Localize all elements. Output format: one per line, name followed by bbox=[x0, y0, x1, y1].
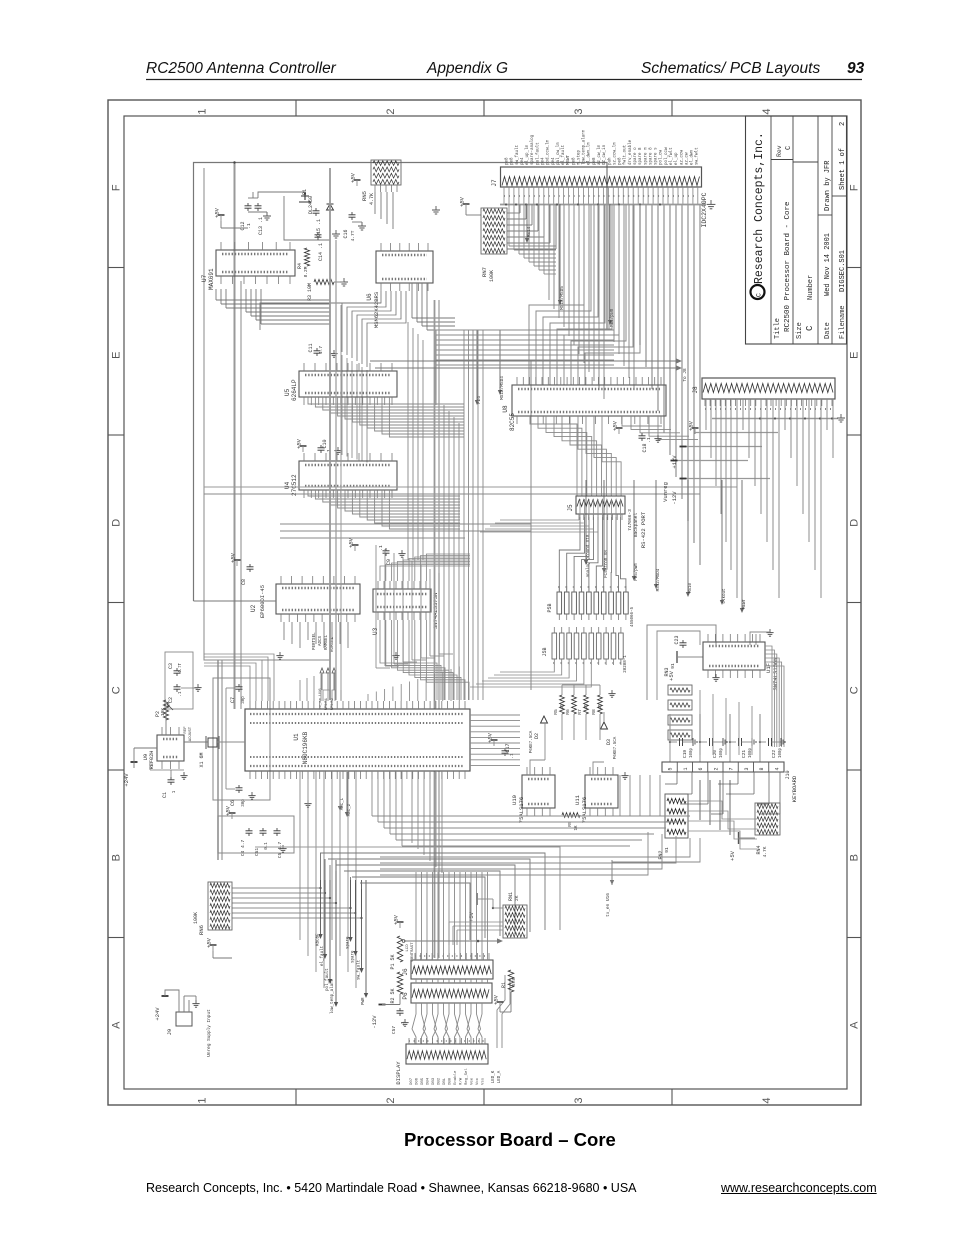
svg-text:J9: J9 bbox=[166, 1029, 173, 1036]
RN1 left wires bbox=[449, 921, 503, 923]
ground U1 bottom bbox=[307, 800, 309, 804]
svg-text:CONTRAST: CONTRAST bbox=[411, 942, 415, 962]
ground C12/C13 bbox=[266, 212, 268, 216]
svg-text:az_cw_lm: az_cw_lm bbox=[597, 144, 602, 165]
svg-text:47: 47 bbox=[561, 704, 565, 710]
svg-text:pe4: pe4 bbox=[521, 157, 525, 165]
svg-text:sz_ccw_lm: sz_ccw_lm bbox=[612, 142, 617, 165]
svg-text:LCD: LCD bbox=[406, 944, 410, 952]
svg-text:R1: R1 bbox=[501, 982, 507, 988]
svg-text:C4 4.7: C4 4.7 bbox=[240, 839, 246, 856]
svg-text:pe8: pe8 bbox=[572, 157, 576, 165]
svg-text:RN5: RN5 bbox=[361, 191, 368, 201]
svg-text:spare m: spare m bbox=[644, 147, 648, 165]
svg-text:.1: .1 bbox=[646, 437, 652, 443]
ground U11 bbox=[624, 772, 626, 776]
vertical trunk x434 bbox=[434, 300, 436, 709]
svg-text:Filename: Filename bbox=[839, 305, 847, 339]
svg-text:MS10: MS10 bbox=[689, 582, 693, 593]
J7 long drops mid bbox=[548, 205, 550, 301]
svg-text:6: 6 bbox=[698, 767, 704, 770]
svg-text:D: D bbox=[111, 519, 123, 527]
ground C15 bbox=[335, 230, 337, 234]
+5V C17 bbox=[491, 739, 498, 741]
svg-text:sw_fault: sw_fault bbox=[515, 144, 520, 165]
svg-text:PC5 from U8: PC5 from U8 bbox=[604, 550, 609, 578]
box around P2 bbox=[165, 652, 193, 709]
svg-text:+12V: +12V bbox=[671, 455, 678, 469]
wire U9 out bbox=[165, 712, 167, 735]
svg-text:RC2500 Antenna Controller: RC2500 Antenna Controller bbox=[146, 60, 337, 77]
connector J9 bbox=[176, 1012, 192, 1026]
ground U6 bbox=[435, 206, 437, 210]
svg-text:+5V: +5V bbox=[393, 914, 400, 925]
svg-text:C: C bbox=[111, 686, 123, 694]
U4 bottom fan bbox=[308, 490, 460, 496]
IC U7 MAX691 bbox=[216, 250, 295, 276]
box around oscillator bbox=[213, 678, 270, 800]
svg-text:27C512: 27C512 bbox=[291, 474, 298, 496]
svg-text:+5V: +5V bbox=[493, 994, 500, 1005]
J7 long drops right bbox=[639, 205, 641, 346]
capacitors C19-C22 100p bbox=[669, 741, 671, 743]
svg-text:100p: 100p bbox=[779, 747, 783, 758]
svg-text:30p: 30p bbox=[242, 696, 246, 704]
jumper row J5B bbox=[552, 633, 557, 659]
svg-text:47: 47 bbox=[599, 704, 603, 710]
svg-text:U7: U7 bbox=[201, 274, 208, 282]
IC U11 75ALS176 bbox=[585, 775, 618, 808]
svg-text:F: F bbox=[849, 184, 861, 191]
svg-text:C22: C22 bbox=[771, 750, 777, 758]
svg-text:spare-analog: spare-analog bbox=[530, 134, 535, 165]
bus keyboard vertical bbox=[619, 775, 621, 816]
svg-text:82C55: 82C55 bbox=[509, 413, 516, 431]
svg-text:J6: J6 bbox=[402, 968, 409, 976]
svg-text:fwlt_out: fwlt_out bbox=[623, 144, 628, 165]
+24V J9 bbox=[162, 995, 169, 997]
svg-text:RN1: RN1 bbox=[508, 892, 514, 901]
svg-text:spare: spare bbox=[352, 950, 356, 963]
svg-text:U10: U10 bbox=[511, 795, 518, 805]
svg-text:N80C196KB: N80C196KB bbox=[302, 731, 309, 764]
diode D2 P6KE7.5CA bbox=[541, 716, 548, 723]
vertical bus x408-423 bbox=[407, 322, 409, 560]
svg-text:DISPLAY: DISPLAY bbox=[395, 1061, 402, 1085]
low_temp_alarm arrow bbox=[335, 860, 337, 1004]
crystal X1 6M bbox=[208, 738, 217, 747]
svg-text:To J8: To J8 bbox=[683, 368, 688, 382]
svg-text:Schematics/ PCB Layouts: Schematics/ PCB Layouts bbox=[641, 60, 820, 77]
svg-text:sw_fwlt: sw_fwlt bbox=[695, 147, 700, 165]
sheet inner border bbox=[124, 116, 847, 1089]
tx_en label bbox=[611, 860, 613, 885]
svg-text:ADCS: ADCS bbox=[319, 635, 323, 646]
capacitor C16 4.7T bbox=[351, 212, 353, 215]
ground C16 bbox=[361, 222, 363, 226]
J5 pins through box bbox=[579, 499, 581, 517]
wire left loop bbox=[204, 168, 330, 660]
svg-text:4: 4 bbox=[761, 1097, 773, 1103]
svg-text:C16: C16 bbox=[343, 229, 349, 238]
+5V RN7 bbox=[463, 203, 470, 205]
capacitor C2 bbox=[176, 684, 178, 687]
+5V R1 bbox=[497, 1001, 504, 1003]
IC U4 27C512 bbox=[299, 461, 397, 490]
Vunreg J8 bbox=[674, 460, 748, 462]
U8 bottom fan right bbox=[622, 416, 662, 426]
svg-text:X1 6M: X1 6M bbox=[199, 752, 205, 767]
IC U1 N80C196KB bbox=[245, 709, 470, 771]
svg-text:Wed Nov 14 2001: Wed Nov 14 2001 bbox=[824, 233, 832, 296]
J7 drops fill bbox=[608, 205, 610, 331]
svg-text:RAMSEL: RAMSEL bbox=[325, 634, 329, 650]
svg-text:J7: J7 bbox=[491, 179, 498, 187]
svg-text:-12V: -12V bbox=[371, 1015, 378, 1029]
svg-text:+5V: +5V bbox=[459, 196, 466, 207]
svg-text:C57: C57 bbox=[391, 1026, 397, 1035]
jumper row P5B bbox=[557, 592, 562, 614]
+5V RN5 bbox=[354, 179, 361, 181]
+5V RN1 bbox=[476, 893, 478, 905]
zone ticks bbox=[295, 100, 297, 116]
svg-text:Drawn by JFR: Drawn by JFR bbox=[824, 160, 832, 211]
capacitor C51 0.1 bbox=[262, 828, 264, 831]
svg-text:Reg_Sel: Reg_Sel bbox=[464, 1068, 469, 1085]
U1 right wires bbox=[470, 714, 520, 716]
svg-text:spare 8: spare 8 bbox=[649, 147, 653, 165]
svg-text:+5V: +5V bbox=[206, 937, 213, 948]
signal arrow MS13/MSD5 bbox=[559, 204, 561, 300]
svg-text:E: E bbox=[849, 352, 861, 359]
U1 bottom drops mid bbox=[371, 771, 373, 816]
svg-text:el_fwlt: el_fwlt bbox=[669, 147, 674, 165]
U2 bottom wires bbox=[283, 622, 285, 640]
resistor network RN2 91 bbox=[665, 794, 688, 838]
ground J7 right bbox=[710, 200, 712, 204]
svg-text:B: B bbox=[849, 854, 861, 861]
wire RN5 down bbox=[374, 192, 376, 214]
svg-text:Backpanel: Backpanel bbox=[633, 513, 639, 538]
svg-text:ADJUST: ADJUST bbox=[189, 726, 193, 741]
IC U8 82C55 bbox=[512, 385, 666, 416]
svg-text:C6: C6 bbox=[230, 800, 236, 806]
svg-text:D: D bbox=[849, 519, 861, 527]
capacitor C13 bbox=[257, 203, 259, 206]
svg-text:az_ccw: az_ccw bbox=[680, 149, 684, 165]
svg-text:Date: Date bbox=[824, 322, 832, 339]
svg-text:Enable: Enable bbox=[453, 1070, 458, 1085]
svg-text:KEYBOARD: KEYBOARD bbox=[791, 775, 798, 802]
svg-text:DB2: DB2 bbox=[438, 1077, 442, 1085]
keyboard wires down bbox=[676, 772, 678, 784]
svg-text:C: C bbox=[785, 146, 793, 150]
svg-text:U11: U11 bbox=[574, 794, 581, 805]
svg-text:-12V: -12V bbox=[671, 491, 678, 505]
svg-text:P6KE7.5CA: P6KE7.5CA bbox=[614, 736, 618, 759]
sheet outer border bbox=[108, 100, 861, 1105]
svg-text:D07: D07 bbox=[410, 1077, 414, 1085]
ground C18 bbox=[657, 435, 659, 439]
svg-text:pol_cw: pol_cw bbox=[659, 149, 664, 165]
+12V J8 bbox=[683, 446, 762, 448]
keyboard matrix verticals bbox=[699, 780, 701, 820]
capacitor C4 4.7 bbox=[248, 828, 250, 831]
svg-text:U9: U9 bbox=[142, 754, 149, 761]
svg-text:J8: J8 bbox=[692, 386, 699, 394]
svg-text:RC2500 Processor Board - Core: RC2500 Processor Board - Core bbox=[784, 201, 792, 332]
resistor network RN1 2K bbox=[503, 905, 527, 938]
svg-text:455066-5: 455066-5 bbox=[631, 606, 635, 627]
svg-text:C: C bbox=[756, 293, 763, 297]
capacitor C11 4.7 bbox=[316, 348, 318, 351]
+5V U1F bbox=[676, 651, 678, 663]
U10/U11 wires bbox=[530, 760, 545, 775]
svg-text:pe8: pe8 bbox=[619, 157, 623, 165]
svg-text:drv_enable: drv_enable bbox=[628, 139, 633, 165]
svg-text:2: 2 bbox=[385, 108, 397, 114]
wire vertical A3 bbox=[217, 660, 219, 860]
svg-text:2: 2 bbox=[713, 767, 719, 770]
wire top rail bbox=[194, 163, 608, 602]
svg-text:PE5/pwm: PE5/pwm bbox=[634, 563, 639, 581]
svg-text:IDC2X40PC: IDC2X40PC bbox=[701, 192, 708, 227]
resistor R4 8.2M bbox=[304, 248, 309, 266]
svg-text:+24V: +24V bbox=[123, 773, 130, 787]
svg-text:DBL: DBL bbox=[443, 1077, 447, 1085]
svg-text:100K: 100K bbox=[193, 912, 199, 924]
svg-text:Rev: Rev bbox=[776, 145, 783, 157]
svg-text:C21: C21 bbox=[741, 750, 747, 758]
+5V RN4 bbox=[738, 832, 740, 844]
wires U6 pins down bbox=[342, 291, 381, 352]
resistor network RN6 100K bbox=[208, 882, 232, 930]
IC U6 MSM62X42BRS bbox=[376, 251, 433, 283]
svg-text:U1: U1 bbox=[293, 733, 300, 741]
bundle J6-P6-DISPLAY bbox=[415, 872, 417, 960]
svg-text:pe4: pe4 bbox=[541, 157, 545, 165]
svg-text:+5V: +5V bbox=[729, 850, 736, 861]
U1F right wires bbox=[765, 646, 772, 747]
svg-text:4: 4 bbox=[774, 767, 780, 770]
svg-text:R4: R4 bbox=[297, 263, 303, 269]
signal arrow MS12/MSD4 bbox=[499, 330, 501, 390]
svg-text:.1: .1 bbox=[179, 691, 183, 697]
svg-text:RN4: RN4 bbox=[756, 845, 762, 854]
capacitor C18 bbox=[641, 433, 643, 436]
ground J9 bbox=[195, 1000, 197, 1004]
resistor R7 47 bbox=[584, 695, 589, 714]
svg-text:Size: Size bbox=[796, 322, 804, 339]
svg-text:el_dwn_lm: el_dwn_lm bbox=[587, 142, 592, 165]
capacitor C10 bbox=[320, 445, 322, 448]
signal arrow MS14 bbox=[526, 204, 528, 238]
svg-text:KBCBF: KBCBF bbox=[317, 933, 321, 946]
U1 top risers mid bbox=[299, 680, 301, 701]
svg-text:4: 4 bbox=[761, 108, 773, 114]
-12V J8 bbox=[683, 478, 770, 480]
wire vertical A2 bbox=[240, 281, 242, 709]
svg-text:Vee: Vee bbox=[471, 1077, 475, 1085]
svg-text:pal_fault: pal_fault bbox=[535, 142, 540, 165]
ground D3 bbox=[611, 690, 613, 694]
svg-text:spare s: spare s bbox=[655, 147, 659, 165]
svg-text:100p: 100p bbox=[690, 747, 694, 758]
svg-text:D3: D3 bbox=[606, 739, 612, 745]
svg-text:U2: U2 bbox=[250, 604, 257, 612]
svg-text:P1 5K: P1 5K bbox=[390, 954, 396, 969]
svg-text:3: 3 bbox=[573, 108, 585, 114]
svg-text:spare 8: spare 8 bbox=[639, 147, 643, 165]
svg-text:J5B: J5B bbox=[542, 647, 548, 656]
svg-text:pe8: pe8 bbox=[511, 157, 515, 165]
svg-text:C51: C51 bbox=[254, 848, 260, 857]
svg-text:4.7T: 4.7T bbox=[350, 230, 356, 241]
svg-text:DB3: DB3 bbox=[432, 1077, 436, 1085]
bus U1 to mid verticals bbox=[375, 545, 377, 668]
bus bottom horizontal bbox=[255, 847, 560, 930]
U1 bottom drops right bbox=[411, 771, 413, 843]
svg-text:P6KE7.5CA: P6KE7.5CA bbox=[530, 730, 534, 753]
svg-text:R7: R7 bbox=[577, 709, 583, 715]
U1 bottom drops left bbox=[299, 771, 301, 940]
capacitor C5 4.7 bbox=[276, 828, 278, 831]
battery B1 DL2450 bbox=[299, 192, 311, 202]
svg-text:+5V: +5V bbox=[230, 552, 237, 563]
diode D1 bbox=[327, 204, 334, 210]
svg-text:+5V: +5V bbox=[296, 438, 303, 449]
svg-text:MS13/MSD5: MS13/MSD5 bbox=[560, 286, 565, 310]
svg-text:+5V: +5V bbox=[214, 207, 221, 218]
svg-text:4.7K: 4.7K bbox=[762, 846, 768, 857]
svg-text:D06: D06 bbox=[416, 1077, 420, 1085]
svg-text:R2 5K: R2 5K bbox=[390, 988, 396, 1003]
svg-text:pah: pah bbox=[607, 157, 612, 165]
+5V U4 bbox=[300, 445, 307, 447]
ground C57 bbox=[404, 1019, 406, 1023]
svg-text:3: 3 bbox=[744, 767, 750, 770]
resistor R6 47 bbox=[572, 695, 577, 714]
svg-text:DB4: DB4 bbox=[427, 1077, 431, 1085]
svg-text:Title: Title bbox=[774, 318, 782, 339]
ground C6 bbox=[251, 792, 253, 796]
svg-text:clkout: clkout bbox=[722, 588, 727, 604]
capacitor C8 bbox=[249, 564, 251, 567]
IC U3 SN74ALS373N bbox=[373, 589, 431, 612]
svg-text:C: C bbox=[805, 325, 815, 331]
svg-text:100K: 100K bbox=[489, 270, 495, 282]
+5V U3 bbox=[352, 544, 359, 546]
svg-text:C2: C2 bbox=[168, 697, 174, 703]
ground C11 bbox=[333, 350, 335, 354]
resistor R8 47 bbox=[598, 695, 603, 714]
signal arrow P26 bbox=[476, 330, 478, 400]
J8 pin drops bbox=[705, 399, 707, 430]
J5 pin fan bbox=[559, 517, 580, 592]
to J8 arrows bbox=[370, 360, 676, 362]
diode D3 P6KE7.5CA bbox=[601, 722, 608, 729]
svg-text:747066-3: 747066-3 bbox=[627, 509, 633, 531]
svg-text:P6: P6 bbox=[402, 992, 409, 1000]
svg-text:R8: R8 bbox=[591, 709, 597, 715]
svg-text:91: 91 bbox=[664, 847, 670, 853]
svg-text:8.2M: 8.2M bbox=[303, 266, 309, 277]
svg-text:100p: 100p bbox=[720, 747, 724, 758]
+5V J8 bbox=[692, 427, 699, 429]
svg-text:C19: C19 bbox=[682, 750, 688, 758]
svg-text:U4: U4 bbox=[284, 481, 291, 489]
svg-text:el_fault: el_fault bbox=[561, 144, 566, 165]
wire osc caps bbox=[217, 741, 245, 743]
U1F to J10 verticals bbox=[699, 690, 701, 755]
svg-text:C13 .1: C13 .1 bbox=[258, 217, 264, 235]
J8 drop arrows bbox=[585, 480, 587, 560]
svg-text:+5V: +5V bbox=[225, 805, 232, 816]
ground C5 bbox=[282, 845, 284, 849]
+5V U7 bbox=[218, 214, 225, 216]
+24V U9 bbox=[131, 761, 138, 763]
svg-text:C17: C17 bbox=[505, 743, 511, 752]
U3 bottom fan bbox=[380, 620, 437, 700]
IC U10 75ALS176 bbox=[522, 775, 555, 808]
svg-text:pe8: pe8 bbox=[506, 157, 510, 165]
wire U2 left bbox=[194, 600, 277, 602]
svg-text:P5B: P5B bbox=[547, 603, 553, 612]
svg-text:RN2: RN2 bbox=[658, 850, 664, 859]
svg-text:75ALS176: 75ALS176 bbox=[518, 797, 525, 823]
U1 top risers left bbox=[204, 666, 250, 701]
svg-text:PWR: PWR bbox=[362, 997, 366, 1005]
svg-text:Vunreg: Vunreg bbox=[662, 482, 669, 502]
box around caps bbox=[218, 816, 294, 853]
vertical trunk x330 bundle bbox=[329, 168, 331, 700]
svg-text:2: 2 bbox=[385, 1097, 397, 1103]
svg-text:ADC_L: ADC_L bbox=[341, 797, 345, 810]
capacitor C17 bbox=[504, 748, 506, 751]
vertical trunk fan x464-483 bbox=[463, 330, 465, 700]
svg-text:PERTSEL: PERTSEL bbox=[313, 632, 317, 650]
svg-text:el_up: el_up bbox=[674, 152, 679, 165]
signal arrows tx_on bbox=[320, 668, 324, 673]
J5B stair wires bbox=[500, 665, 554, 672]
connector J10 KEYBOARD bbox=[662, 762, 784, 772]
svg-text:sw_fault: sw_fault bbox=[357, 959, 362, 980]
svg-text:A: A bbox=[849, 1021, 861, 1029]
svg-text:MS12/MSD4: MS12/MSD4 bbox=[500, 376, 505, 400]
svg-text:3: 3 bbox=[573, 1097, 585, 1103]
svg-text:20208-1: 20208-1 bbox=[624, 655, 628, 673]
U1 top risers trunk bbox=[323, 690, 330, 701]
resistor network RN5 4.7K bbox=[371, 160, 401, 185]
connector J7 IDC2X40PC bbox=[501, 167, 702, 187]
U3 top fan bbox=[380, 566, 470, 581]
svg-text:1: 1 bbox=[683, 767, 689, 770]
svg-text:DB0: DB0 bbox=[449, 1077, 453, 1085]
svg-text:75ALS176: 75ALS176 bbox=[581, 797, 588, 823]
capacitor C23 bbox=[682, 640, 684, 643]
svg-text:pe8: pe8 bbox=[593, 157, 597, 165]
svg-text:8: 8 bbox=[759, 767, 765, 770]
ground C1 bbox=[183, 772, 185, 776]
svg-text:.1: .1 bbox=[326, 449, 332, 455]
wire U6 right drops bbox=[411, 283, 413, 318]
svg-text:C18: C18 bbox=[642, 443, 648, 452]
svg-text:el_up_lm: el_up_lm bbox=[525, 144, 530, 165]
svg-text:6264LP: 6264LP bbox=[291, 379, 298, 401]
company logo bbox=[751, 285, 765, 299]
svg-text:Sheet 1 of: Sheet 1 of bbox=[839, 148, 847, 190]
svg-text:DL2450: DL2450 bbox=[308, 196, 314, 214]
